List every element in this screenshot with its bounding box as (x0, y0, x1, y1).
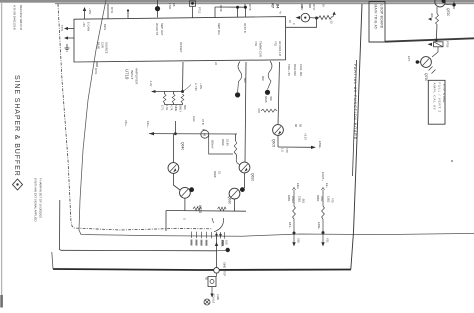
svg-text:Q605: Q605 (272, 139, 276, 147)
svg-text:OFFSET: OFFSET (179, 42, 183, 53)
arrow down to coax (211, 287, 213, 296)
sine output wire horizontal (60, 200, 218, 251)
svg-text:R615: R615 (264, 96, 268, 103)
svg-text:-1.3V: -1.3V (149, 80, 153, 87)
resistor 1K horizontal (317, 15, 334, 19)
section diamond marker (13, 179, 23, 190)
emitter bus wire y210 (166, 210, 246, 213)
pin wire x215 (214, 7, 216, 18)
svg-text:47Ω: 47Ω (274, 41, 278, 46)
svg-text:FB: FB (172, 3, 176, 7)
resistor R615 horizontal (261, 109, 277, 112)
svg-text:PARA: PARA (291, 196, 295, 203)
svg-text:SINE: SINE (174, 105, 178, 111)
svg-text:E3+: E3+ (325, 183, 329, 188)
svg-text:ESW+: ESW+ (318, 141, 322, 149)
left pin stub 2 (65, 37, 74, 39)
svg-text:450: 450 (269, 96, 273, 101)
svg-text:S: S (183, 218, 187, 220)
emitter resistor zigzag horizontal 2 (218, 207, 227, 211)
svg-text:CHA: CHA (192, 116, 196, 122)
resistor 30K vertical (436, 14, 439, 25)
svg-text:ONLY: ONLY (179, 105, 183, 112)
svg-text:OFST B: OFST B (243, 23, 247, 33)
arrow label right y147 (311, 146, 316, 149)
svg-text:100: 100 (225, 240, 229, 245)
svg-text:R7: R7 (271, 3, 276, 9)
Q605 transistor (273, 125, 284, 136)
svg-text:P-P SINE: P-P SINE (442, 84, 446, 103)
bottom pin stub x97 (96, 62, 98, 67)
bead at Q635 (189, 187, 194, 192)
svg-text:R652: R652 (316, 195, 320, 202)
svg-text:56: 56 (299, 124, 303, 127)
svg-text:SINE STEP: SINE STEP (223, 262, 227, 276)
svg-text:C652: C652 (327, 196, 331, 203)
arrow into feedthrough (428, 43, 433, 46)
svg-text:R718: R718 (219, 5, 223, 12)
svg-text:2N OUT B: 2N OUT B (155, 23, 159, 36)
svg-text:AMPL CAL 8V: AMPL CAL 8V (433, 83, 437, 111)
short pin tick x128 (127, 11, 129, 18)
svg-text:47Ω: 47Ω (254, 41, 258, 46)
hanging network column 2 (322, 188, 325, 191)
svg-text:CUR: CUR (101, 42, 105, 48)
input arrow left of sine wire (149, 132, 154, 135)
svg-text:R656: R656 (220, 240, 224, 247)
svg-text:E GAIN: E GAIN (87, 22, 91, 31)
box right pin wire (286, 18, 317, 27)
wire left from junction (153, 91, 183, 93)
svg-text:BIAS: BIAS (103, 24, 107, 30)
Q720 transistor top right (435, 0, 445, 7)
svg-text:C612 .001: C612 .001 (299, 64, 303, 77)
svg-text:4x: 4x (279, 11, 283, 14)
ferrite bead L720 (155, 6, 160, 11)
svg-text:R717: R717 (312, 4, 316, 11)
sheet border top line (55, 3, 474, 5)
Q630 transistor (229, 188, 240, 199)
svg-text:X31: X31 (326, 238, 330, 243)
drop wire to sine wire (174, 121, 176, 134)
svg-text:TO A10: TO A10 (212, 294, 216, 304)
MAIN TRIG A5 LOOP BOARD box (369, 2, 385, 43)
bead below box right (265, 90, 270, 95)
svg-text:PARTIAL A6 FUNCTION BOARD: PARTIAL A6 FUNCTION BOARD (353, 64, 357, 140)
svg-text:R628: R628 (213, 171, 217, 178)
svg-text:AMPLIFIER: AMPLIFIER (135, 68, 139, 85)
+15V feed tick (453, 2, 455, 10)
feedthrough box below heavy line (434, 42, 444, 47)
Q620 transistor (239, 162, 250, 173)
+15V arrow on output wire (215, 242, 218, 246)
svg-text:EKL+: EKL+ (146, 121, 150, 128)
collector wire x279 from box to Q605 (278, 62, 280, 125)
bias pin wire to border (107, 4, 109, 18)
emitter resistor zigzag horizontal 1 (193, 207, 202, 211)
attenuator box (208, 277, 216, 287)
Q620 base squiggle (234, 153, 239, 165)
heavy signal line to right edge (385, 38, 474, 41)
connector circle on board edge (214, 268, 220, 274)
svg-text:LOOP BOARD: LOOP BOARD (380, 5, 384, 29)
svg-text:EIN+: EIN+ (296, 183, 300, 189)
+15V pin above box (84, 9, 86, 20)
Q730 emitter hatches (429, 67, 433, 71)
svg-text:500mV: 500mV (211, 140, 215, 149)
svg-text:X30: X30 (297, 238, 301, 243)
coax connector symbol (204, 299, 210, 305)
svg-text:B4: B4 (276, 4, 280, 10)
svg-text:TRIG +5V: TRIG +5V (287, 64, 291, 76)
svg-text:600: 600 (243, 78, 247, 83)
wire down to Q730 (432, 47, 438, 57)
Q640 transistor (168, 163, 179, 174)
ground symbol left (66, 44, 68, 48)
svg-text:P712: P712 (198, 7, 202, 14)
annotation curve +7.9V (183, 85, 192, 92)
left pin stub 1 (65, 28, 74, 30)
svg-text:8 WITH AN EXT SIGNAL APPLIED: 8 WITH AN EXT SIGNAL APPLIED (34, 178, 38, 222)
svg-text:.001: .001 (302, 198, 306, 204)
svg-text:R714: R714 (110, 7, 114, 14)
function board bus second line (353, 60, 357, 176)
svg-text:INPUT: INPUT (130, 70, 134, 79)
svg-text:SOURCE: SOURCE (105, 42, 109, 54)
pin labels smudges (191, 240, 224, 246)
svg-text:TP71: TP71 (60, 25, 64, 32)
svg-text:P750: P750 (446, 41, 450, 48)
Q635 emitter down (184, 198, 186, 210)
svg-text:+15V: +15V (300, 4, 304, 11)
svg-text:R745: R745 (248, 4, 252, 11)
U710 IC box (74, 17, 286, 62)
stray mark (451, 160, 453, 162)
svg-text:Q630: Q630 (228, 196, 232, 204)
svg-text:470: 470 (285, 148, 289, 153)
Q605 emitter wire down and right (277, 135, 279, 147)
+15V arrow after resistor (333, 14, 334, 17)
Q730 base lead with bead (416, 61, 421, 63)
svg-text:1.8L: 1.8L (165, 105, 169, 111)
Q620 base branch wire (209, 134, 233, 154)
svg-text:E5.1-: E5.1- (288, 222, 292, 229)
svg-text:+15V: +15V (88, 8, 92, 15)
svg-text:C651: C651 (298, 196, 302, 203)
svg-text:FULL / VERT 2: FULL / VERT 2 (438, 83, 442, 114)
output wire vertical x216 (216, 237, 218, 268)
bead at Q630 (240, 187, 245, 192)
svg-text:REV NOV 1984 P-B: REV NOV 1984 P-B (19, 5, 23, 30)
resistor R723 vertical (163, 94, 166, 103)
svg-text:56K: 56K (183, 105, 187, 110)
svg-text:4: 4 (203, 132, 206, 137)
svg-text:Q730: Q730 (424, 73, 428, 81)
long feedback wire from top border down left side (79, 0, 474, 236)
svg-text:R612 820: R612 820 (293, 64, 297, 76)
Q635 transistor (180, 187, 191, 198)
svg-text:VKL+: VKL+ (124, 120, 128, 127)
svg-text:470: 470 (331, 198, 335, 203)
board outline left stub (52, 252, 53, 269)
svg-text:F HAIRPIN SET OF 16 DIODES: F HAIRPIN SET OF 16 DIODES (39, 178, 43, 218)
svg-text:VAR: VAR (320, 196, 324, 201)
svg-text:SINE SHAPER & BUFFER: SINE SHAPER & BUFFER (13, 75, 20, 177)
test point arrow (296, 16, 301, 19)
svg-text:22: 22 (214, 62, 218, 65)
pin junction dots (215, 234, 217, 236)
tick x245 (244, 4, 246, 9)
svg-text:Q640: Q640 (181, 142, 185, 150)
resistor R724 vertical (172, 94, 175, 103)
junction dot on sine wire (226, 248, 230, 252)
svg-text:TIMING CUR: TIMING CUR (259, 41, 263, 57)
scan top edge band (0, 0, 474, 3)
svg-text:9: 9 (292, 23, 295, 25)
connector pin ticks row (192, 232, 225, 239)
collector wire x246 from box to Q620 (245, 62, 246, 162)
svg-text:Q620: Q620 (251, 173, 255, 181)
calibration tall box right (428, 80, 445, 124)
svg-text:SWP OUT: SWP OUT (160, 23, 164, 36)
svg-text:16: 16 (288, 20, 291, 23)
Q720 emitter wire right (445, 4, 452, 6)
svg-text:MAIN TRIG A5: MAIN TRIG A5 (374, 5, 378, 30)
curved wire into pins row (214, 218, 224, 232)
offset network bottom bus (165, 103, 183, 105)
svg-text:1K: 1K (322, 4, 326, 7)
svg-text:15: 15 (218, 171, 222, 174)
svg-text:J100: J100 (216, 294, 220, 300)
svg-text:50: 50 (205, 277, 209, 280)
svg-text:+15: +15 (330, 19, 334, 24)
board bottom edge long line (53, 269, 351, 270)
scan left edge line upper (1, 2, 3, 295)
svg-text:SWP IN A: SWP IN A (217, 23, 221, 35)
svg-text:1.5: 1.5 (281, 148, 285, 152)
svg-text:BASE: BASE (97, 42, 101, 49)
test point circle TP715 (301, 13, 310, 22)
svg-text:30K: 30K (430, 13, 434, 18)
svg-text:EXT: EXT (407, 56, 411, 62)
resistor R630 vertical (234, 141, 237, 154)
svg-text:600: 600 (261, 76, 265, 81)
svg-text:R721: R721 (94, 68, 98, 75)
svg-text:C?1: C?1 (161, 105, 165, 110)
connector square pin (190, 1, 196, 6)
Q630 emitter down (234, 199, 236, 211)
junction node offset (181, 90, 184, 93)
junction dot right pin (315, 17, 318, 20)
svg-text:AT B: AT B (201, 119, 205, 125)
board outline dash-dot left edge (58, 4, 212, 230)
svg-text:+5.1V: +5.1V (304, 133, 308, 140)
Q720 collector wire down (436, 7, 438, 14)
ticks near x302 (301, 4, 303, 8)
offset pin wire down x183 (182, 62, 185, 92)
svg-text:A 30 SN B461133-B: A 30 SN B461133-B (13, 5, 17, 30)
svg-text:L720: L720 (168, 3, 172, 9)
svg-text:15.8V: 15.8V (226, 139, 230, 146)
svg-text:A 7.9V: A 7.9V (194, 83, 198, 91)
svg-text:R651: R651 (287, 195, 291, 202)
svg-text:EDN+: EDN+ (317, 222, 321, 230)
board right edge vertical (351, 4, 362, 269)
junction on heavy line (435, 39, 438, 42)
resistor R725 vertical (181, 94, 184, 103)
svg-text:EOUT+: EOUT+ (321, 172, 325, 181)
svg-text:+5V: +5V (82, 22, 86, 27)
svg-text:Q720: Q720 (446, 8, 450, 16)
svg-text:68: 68 (294, 124, 298, 127)
Q620 emitter down (244, 173, 246, 188)
ferrite bead top 2 (215, 7, 245, 17)
svg-text:+15V: +15V (199, 83, 203, 90)
svg-text:U710: U710 (125, 69, 130, 80)
Q730 transistor (421, 57, 432, 68)
svg-text:R630: R630 (221, 139, 225, 146)
svg-text:4.7K: 4.7K (170, 105, 174, 111)
Q640 emitter wire (173, 173, 180, 190)
hanging network column 1 (293, 188, 296, 191)
svg-text:HF CUR A B: HF CUR A B (278, 41, 282, 56)
scan left edge lower bar (0, 295, 3, 308)
bead below box left (235, 92, 240, 97)
sine drive wire horizontal (149, 133, 237, 135)
waveform marker 4 (201, 130, 209, 138)
